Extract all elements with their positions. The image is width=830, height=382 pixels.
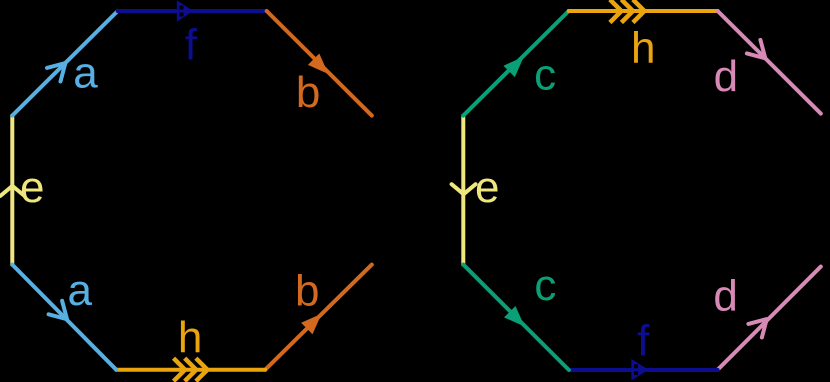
arrow a1 open V pointing up-right [47,63,65,81]
svg-text:f: f [185,21,198,70]
svg-text:b: b [295,266,319,315]
svg-text:h: h [178,313,202,362]
svg-text:h: h [631,23,655,72]
edge c2 (lower-left diagonal, teal) [463,265,569,370]
svg-text:d: d [714,52,738,101]
edge d2 (lower-right diagonal, pink) [718,267,821,370]
svg-text:a: a [73,48,98,97]
svg-text:c: c [534,51,556,100]
edge f2 (bottom, dark blue) [569,368,718,372]
edge e2 (left vertical, khaki) [461,116,465,265]
edge c1 (upper-left diagonal, teal) [463,11,568,116]
arrow d1 open V pointing down-right [747,40,765,58]
arrow b2 filled triangle pointing up-right [301,314,322,335]
arrow f2 notched triangle pointing right [631,359,648,381]
edge h2 (top, amber) [569,9,718,13]
edge h1 (bottom, amber) [116,368,265,372]
arrow f1 notched triangle pointing right [177,0,194,22]
arrow b1 filled triangle pointing down-right [308,54,329,75]
arrow e1 open V pointing up [0,186,24,196]
edge b2 (lower-right diagonal, vermillion) [265,265,372,370]
svg-text:e: e [20,163,44,212]
edge f1 (top, dark blue) [118,9,267,13]
edge a1 (upper-left diagonal, sky blue) [12,11,117,116]
edge a2 (lower-left diagonal, sky blue) [12,265,116,370]
right octagon [452,11,821,370]
arrow c2 filled triangle pointing down-right [504,306,525,327]
arrow h1 triple chevron pointing right [174,358,208,381]
arrow a2 open V pointing down-right [49,301,67,319]
svg-text:b: b [296,68,320,117]
arrow h2 triple chevron pointing right [610,0,645,23]
svg-text:f: f [637,316,650,365]
arrow d2 open V pointing up-right [748,319,766,337]
svg-text:c: c [534,261,556,310]
edge d1 (upper-right diagonal, pink) [718,11,821,114]
svg-text:a: a [68,266,93,315]
arrow e2 open V pointing down [452,184,476,194]
arrow c1 filled triangle pointing up-right [503,57,524,78]
svg-text:e: e [475,163,499,212]
edge b1 (upper-right diagonal, vermillion) [267,11,372,116]
edge e1 (left vertical, khaki) [10,116,14,265]
left octagon [0,11,371,370]
svg-text:d: d [713,271,737,320]
